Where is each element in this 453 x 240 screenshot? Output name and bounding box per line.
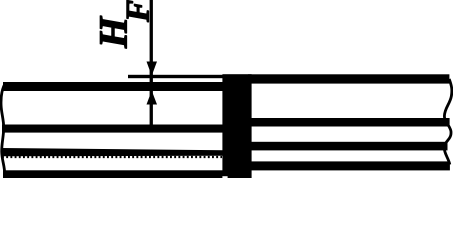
wire left plate bottom edge line (3, 170, 226, 178)
arrowhead down at flash top (147, 62, 158, 76)
label HF (100, 0, 148, 48)
white notch at bar bottom-left (222, 176, 227, 178)
wire flash top extension thin line (128, 75, 224, 78)
wire left break line (1, 84, 5, 174)
arrowhead up at plate surface (147, 91, 158, 105)
wire dimension line vertical (150, 0, 153, 126)
wire left lower sheet top line (2, 148, 224, 156)
wire right break line (444, 79, 452, 165)
wire left plate top edge line (3, 82, 226, 91)
wire left upper sheet bottom line (2, 125, 226, 133)
wire right plate top edge line (248, 74, 449, 83)
wire right plate bottom edge line (248, 161, 450, 170)
weld flash bar (joint) (222, 74, 251, 178)
wire serrated dotted line under left lower sheet top (2, 156, 222, 158)
wire right lower sheet top line (248, 142, 448, 151)
wire right upper sheet bottom line (248, 118, 450, 127)
